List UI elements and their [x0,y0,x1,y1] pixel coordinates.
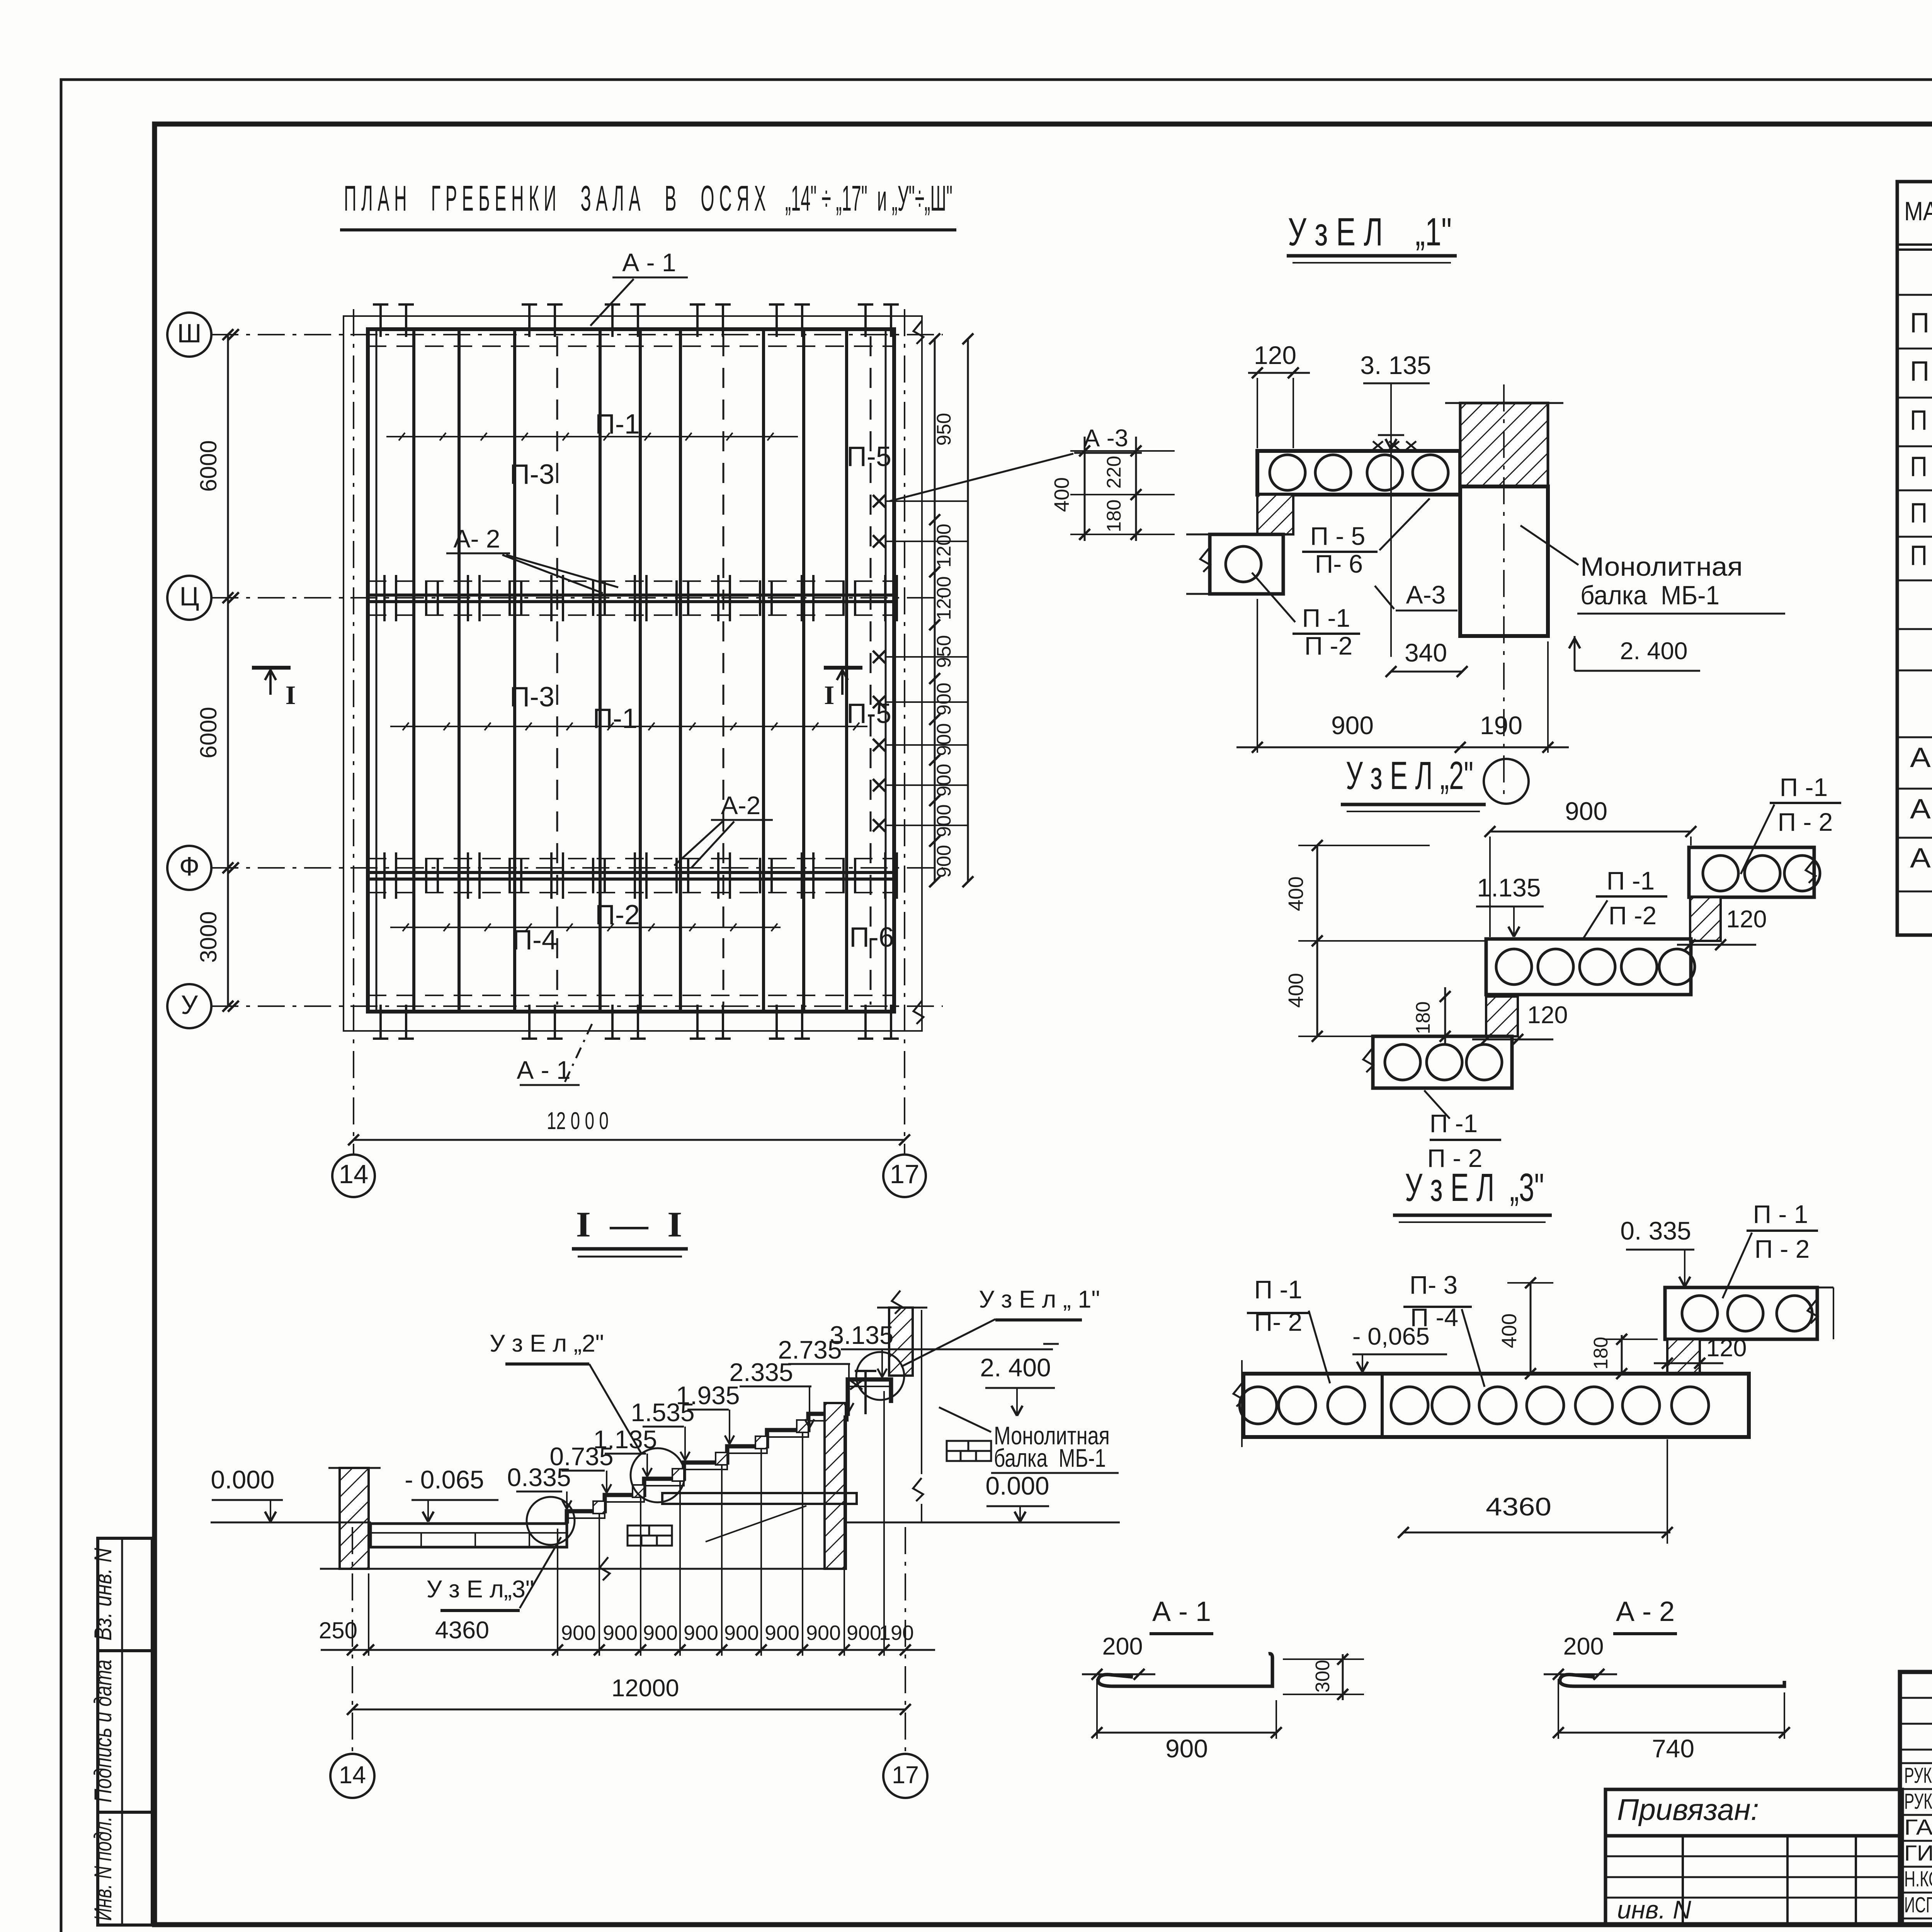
plan beam at axis Ф (double line with anchor ticks) [368,852,897,899]
svg-text:П -2: П -2 [1609,901,1656,930]
plan panel mid reference lines [386,433,867,931]
svg-text:120: 120 [1726,906,1767,933]
svg-text:П-3: П-3 [510,459,554,490]
svg-text:Вз. инв. N: Вз. инв. N [90,1548,117,1641]
svg-text:П - 2: П - 2 [1778,808,1833,836]
svg-text:А - 1: А - 1 [622,248,676,277]
svg-text:балка МБ-1: балка МБ-1 [994,1444,1106,1472]
svg-text:220: 220 [1103,456,1125,488]
svg-text:П-5: П-5 [847,441,891,472]
uzel 3 long floor slab [1233,1360,1749,1447]
svg-text:900: 900 [933,682,955,715]
uzel 2 label P-1/P-2 (middle) [1583,866,1667,938]
svg-text:РУК. АБ-1: РУК. АБ-1 [1904,1763,1932,1788]
svg-text:П- 6: П- 6 [1315,549,1363,578]
uzel 1 label A-3 [1375,580,1458,611]
svg-text:У з Е л„3": У з Е л„3" [427,1576,534,1603]
svg-text:П - 5: П - 5 [1310,522,1366,550]
spec table headers [1904,189,1932,237]
svg-text:6000: 6000 [196,707,221,758]
svg-text:А - 1: А - 1 [1910,742,1932,773]
uzel 3 top slab [1665,1287,1833,1339]
svg-text:П -1: П -1 [1607,866,1655,895]
uzel 1 dim 120 [1248,341,1310,448]
svg-text:0.000: 0.000 [985,1471,1049,1500]
svg-text:900: 900 [561,1621,596,1645]
uzel 2 bottom slab [1363,1036,1512,1088]
axis line У [211,1005,943,1007]
svg-text:У з Е Л „3": У з Е Л „3" [1405,1165,1544,1209]
svg-text:0. 335: 0. 335 [1620,1216,1691,1245]
svg-text:4360: 4360 [435,1617,489,1644]
uzel 3 dim 400 (vertical) [1498,1277,1553,1379]
svg-text:А - 1: А - 1 [1152,1596,1211,1627]
callout A-1 (plan bottom) [517,1024,592,1085]
svg-text:П -2: П -2 [1304,631,1352,660]
section middle wall (hatched) [825,1403,846,1569]
uzel 3 label P-1/P-2 (top right) [1723,1200,1818,1298]
svg-text:Ш: Ш [177,318,201,348]
detail A-1 dim 300 [1283,1654,1364,1700]
svg-text:Ц: Ц [179,582,199,611]
svg-text:400: 400 [1050,477,1073,512]
svg-text:инв. N: инв. N [1617,1895,1691,1924]
uzel 2 top slab [1689,847,1820,897]
section datum line left [211,1522,371,1524]
section axis circle 17 [883,1754,927,1798]
svg-text:6000: 6000 [196,440,221,492]
svg-text:12 0 0 0: 12 0 0 0 [547,1107,609,1134]
svg-text:У з Е л „2": У з Е л „2" [490,1330,604,1357]
uzel 3 level 0.335 [1620,1216,1694,1287]
svg-text:П-3: П-3 [510,682,554,713]
section ground line [320,1557,847,1580]
svg-text:14: 14 [339,1159,369,1189]
svg-text:Инв. N подл.: Инв. N подл. [90,1816,117,1921]
section I-I title [572,1205,688,1257]
section callout uzel 1 [901,1286,1100,1367]
uzel 2 dim 900 [1485,797,1696,937]
svg-text:Монолитная: Монолитная [1580,552,1743,582]
plan bottom edge anchors A-1 [373,1005,899,1039]
axis line 17 (vertical) [904,309,905,1155]
svg-text:3000: 3000 [196,911,221,963]
svg-text:180: 180 [1590,1337,1612,1369]
plan panel labels [510,409,894,956]
svg-text:900: 900 [933,845,955,878]
uzel 2 label P-1/P-2 (top) [1741,773,1841,874]
svg-text:П -1: П -1 [1430,1109,1478,1138]
section level 2.400 [980,1353,1055,1416]
uzel 1 bottom dimension 900/190 [1236,599,1569,753]
svg-text:3. 135: 3. 135 [1360,351,1431,379]
axis line Ц [211,597,943,599]
uzel 1 left dimension chain 400=220+180 [1050,437,1175,541]
uzel 2 bearing pad (middle, hatched) [1486,997,1518,1036]
svg-text:14: 14 [339,1762,366,1789]
svg-text:П - 76: П - 76 [1910,451,1932,482]
callout A-3 (plan right) [889,425,1142,501]
section level 0.000 right [847,1471,1120,1522]
svg-text:П -1: П -1 [1254,1275,1302,1304]
svg-text:П-2: П-2 [595,900,640,930]
svg-text:900: 900 [806,1621,841,1645]
callout A-1 (plan top) [590,248,688,326]
svg-text:900: 900 [1565,797,1607,825]
svg-text:2. 400: 2. 400 [980,1353,1051,1382]
plan x-marks (anchors A-3) [873,495,968,832]
svg-text:П-1: П-1 [595,409,640,440]
svg-text:А-2: А-2 [721,791,761,820]
svg-text:1.135: 1.135 [1477,873,1541,902]
svg-text:200: 200 [1563,1633,1604,1660]
uzel 1 bearing ledge (hatched) [1257,495,1293,534]
svg-text:ГИП: ГИП [1904,1841,1932,1866]
section node circle uzel 1 [856,1352,904,1400]
uzel 3 bearing pad (hatched) [1667,1339,1700,1374]
section level -0.065 [405,1465,498,1522]
section total dimension 12000 [347,1527,911,1752]
svg-text:А - 3: А - 3 [1910,843,1932,874]
svg-text:900: 900 [1165,1734,1208,1763]
svg-text:П -4: П -4 [1410,1303,1458,1332]
svg-text:П - 30: П - 30 [1910,498,1932,529]
uzel 3 dim 180 (vertical) [1590,1334,1658,1379]
section anchor at top platform [850,1371,876,1414]
section step level labels [507,1463,571,1509]
axis line 14 (vertical) [353,309,354,1155]
section cut marker I (left) [252,668,296,710]
uzel 1 slab P-5/P-6 [1257,451,1460,495]
svg-text:П -1: П -1 [1302,604,1350,632]
section right wall edge line [913,1310,923,1522]
svg-text:У з Е Л „2": У з Е Л „2" [1346,753,1473,798]
svg-text:400: 400 [1284,973,1308,1008]
uzel 2 level 1.135 [1476,873,1544,937]
svg-text:900: 900 [847,1621,881,1645]
svg-text:- 0.065: - 0.065 [405,1465,484,1494]
svg-text:У з Е л „ 1": У з Е л „ 1" [979,1286,1100,1313]
title block signature labels [1904,1761,1932,1918]
svg-text:Н.КОНТР.: Н.КОНТР. [1904,1867,1932,1891]
uzel 2 dim 180 [1412,987,1451,1043]
svg-text:П-6: П-6 [849,922,894,953]
svg-text:180: 180 [1412,1001,1434,1034]
detail A-1 dim 900 [1092,1679,1282,1763]
axis circle Ц [167,576,239,620]
svg-text:340: 340 [1405,638,1447,667]
uzel 3 label P-3/P-4 [1403,1270,1485,1387]
svg-text:900: 900 [603,1621,638,1645]
svg-text:А -3: А -3 [1083,425,1128,452]
uzel 1 monolithic beam MB-1 [1460,384,1548,801]
svg-text:900: 900 [933,804,955,837]
uzel 3 title [1393,1165,1552,1222]
section axis circle 14 [330,1754,374,1798]
svg-text:180: 180 [1103,499,1125,532]
title block outer frame [1900,1672,1932,1925]
svg-text:950: 950 [933,635,955,668]
svg-text:П- 2: П- 2 [1254,1308,1302,1336]
section floor slab at -0.065 [371,1524,567,1547]
svg-text:900: 900 [765,1621,799,1645]
svg-text:А - 2: А - 2 [1910,794,1932,825]
svg-text:I: I [824,680,835,710]
svg-text:А- 2: А- 2 [453,524,500,553]
svg-text:3.135: 3.135 [830,1321,893,1349]
svg-text:400: 400 [1284,876,1308,911]
plan panel field (thick rectangle) [368,329,894,1012]
svg-text:П - 1: П - 1 [1753,1200,1808,1228]
svg-text:П- 3: П- 3 [1410,1270,1458,1299]
svg-text:900: 900 [643,1621,678,1645]
detail A-1 anchor bar [1098,1654,1272,1686]
section brick pier 2 [947,1441,991,1461]
uzel 3 label P-1/P-2 (left) [1247,1275,1330,1383]
axis circle Ф [167,846,239,890]
svg-text:П - 35: П - 35 [1910,540,1932,571]
svg-text:А - 2: А - 2 [1616,1596,1675,1627]
svg-text:4360: 4360 [1486,1492,1551,1521]
svg-text:400: 400 [1498,1313,1521,1348]
plan right outer dimension line [963,333,973,887]
uzel 1 level 2.400 [1569,636,1700,671]
section callout uzel 3 [427,1537,561,1611]
uzel 2 middle slab [1486,939,1695,995]
title block signature grid [1900,1672,1932,1925]
axis line Ш [211,334,943,335]
uzel 1 label P-1/P-2 [1252,573,1360,660]
section left level 0.000 [211,1465,283,1522]
uzel 3 level -0.065 [1352,1323,1447,1372]
spec table data rows [1910,308,1932,571]
svg-text:Привязан:: Привязан: [1617,1793,1759,1827]
svg-text:200: 200 [1102,1633,1143,1660]
uzel 1 title [1287,210,1457,263]
svg-text:12000: 12000 [611,1675,679,1702]
section left wall (hatched) [328,1468,381,1569]
svg-text:120: 120 [1254,341,1296,369]
svg-text:I: I [286,680,296,710]
uzel 2 dim 120 (top pad) [1677,906,1767,950]
svg-text:1200: 1200 [933,576,955,620]
uzel 1 label monolithic beam MB-1 [1520,526,1785,614]
svg-text:0.000: 0.000 [211,1465,274,1494]
svg-text:А-3: А-3 [1406,580,1446,609]
svg-text:1.135: 1.135 [593,1425,657,1454]
axis circle 14 (plan) [332,1155,375,1197]
svg-text:У: У [181,990,198,1020]
uzel 1 lower slab P-1/P-2 [1186,534,1283,594]
uzel 2 title [1341,753,1486,811]
svg-text:П -74: П -74 [1910,356,1932,387]
svg-text:900: 900 [684,1621,718,1645]
plan left dimension chain 6000/6000/3000 [196,329,233,1012]
uzel 2 dim 120 (middle pad) [1472,1002,1568,1045]
left margin stamp strips [90,1538,152,1925]
axis line Ф [211,867,943,869]
svg-text:МАРКА: МАРКА [1904,196,1932,226]
svg-text:балка МБ-1: балка МБ-1 [1580,580,1719,610]
svg-text:120: 120 [1706,1335,1747,1362]
svg-text:1200: 1200 [933,524,955,567]
section stepped gребенка profile [567,1379,891,1524]
plan panel joint lines (vertical, solid) [376,331,886,1010]
uzel 1 wall above beam (hatched) [1445,403,1563,486]
svg-text:Подпись и дата: Подпись и дата [90,1660,117,1803]
svg-text:РУК. КБ-1: РУК. КБ-1 [1904,1789,1932,1814]
uzel 1 node circle marker [1484,759,1529,804]
svg-text:120: 120 [1527,1002,1568,1029]
svg-text:900: 900 [1331,711,1374,740]
uzel 1 level 3.135 [1360,351,1431,449]
plan top edge anchors A-1 [373,304,899,337]
plan right dimension chain [929,333,955,887]
section node circle uzel 2 [631,1448,685,1502]
svg-text:17: 17 [892,1762,919,1789]
section cut marker I (right) [824,668,862,710]
section callout uzel 2 [490,1330,641,1454]
detail A-2 dim 740 [1553,1679,1790,1763]
uzel 3 dim 120 [1654,1335,1747,1369]
plan bottom dimension 12000 [348,1107,910,1145]
svg-text:П-1: П-1 [593,703,638,734]
detail A-2 title [1613,1596,1677,1634]
uzel 1 anchor A-3 on slab top [1373,433,1416,657]
plan beam at axis Ц (double line with anchor ticks) [368,575,897,621]
svg-text:П - 75: П - 75 [1910,405,1932,436]
svg-text:900: 900 [933,723,955,756]
svg-text:740: 740 [1652,1734,1694,1763]
svg-text:900: 900 [724,1621,759,1645]
detail A-2 dim 200 [1544,1633,1617,1680]
detail A-2 anchor bar [1560,1675,1784,1686]
svg-text:950: 950 [933,413,955,446]
uzel 1 label P-5/P-6 [1302,498,1430,578]
svg-text:П -73: П -73 [1910,308,1932,338]
svg-text:300: 300 [1311,1660,1333,1692]
detail A-1 title [1150,1596,1213,1634]
section brick pier 1 [628,1526,672,1546]
privyazan table [1605,1836,1902,1925]
svg-text:17: 17 [890,1159,920,1189]
plan panel joint lines (vertical, dashed) [368,336,894,1005]
svg-text:П-4: П-4 [512,925,557,956]
callout A-2 (plan upper) [446,524,618,593]
svg-text:П Л А Н Г Р Е Б Е Н К И: П Л А Н Г Р Е Б Е Н К И З А Л А В О С Я … [344,178,952,218]
plan slab thin outline [344,316,923,1031]
svg-text:ИСПОЛН.: ИСПОЛН. [1904,1893,1932,1917]
svg-text:I — I: I — I [576,1205,682,1245]
uzel 3 dim 4360 [1398,1439,1673,1544]
uzel 2 bearing pad (top, hatched) [1690,897,1721,941]
svg-text:П - 2: П - 2 [1755,1235,1810,1263]
svg-text:А - 1: А - 1 [517,1056,570,1084]
section right upper wall (hatched) [877,1291,927,1376]
axis circle У [167,984,239,1028]
uzel 2 label P-1/P-2 (bottom) [1424,1090,1501,1172]
svg-text:П-5: П-5 [847,698,891,729]
section bottom dimension chain [319,1391,935,1656]
spec table grid [1897,182,1932,935]
section node circle uzel 3 [527,1497,575,1545]
callout A-2 (plan lower) [674,791,773,867]
svg-text:У з Е Л „1": У з Е Л „1" [1288,210,1452,254]
axis circle Ш [167,313,239,357]
uzel 1 dim 340 [1386,638,1468,677]
detail A-1 dim 200 [1082,1633,1155,1680]
svg-text:190: 190 [1480,711,1522,740]
section label monolithic beam MB-1 [939,1407,1119,1473]
svg-text:2. 400: 2. 400 [1620,638,1687,665]
svg-text:Ф: Ф [179,852,199,881]
svg-text:ГАП: ГАП [1904,1815,1932,1840]
section floor beam at 0.000 [662,1493,857,1590]
svg-text:900: 900 [933,764,955,796]
uzel 2 left dimension chain 400/400 [1284,840,1486,1042]
svg-text:П -1: П -1 [1780,773,1828,801]
section level line 3.135 extension [885,1344,1059,1349]
plan title [340,178,956,230]
axis circle 17 (plan) [883,1155,926,1197]
spec table anchor rows [1910,742,1932,874]
privyazan box [1605,1789,1902,1836]
